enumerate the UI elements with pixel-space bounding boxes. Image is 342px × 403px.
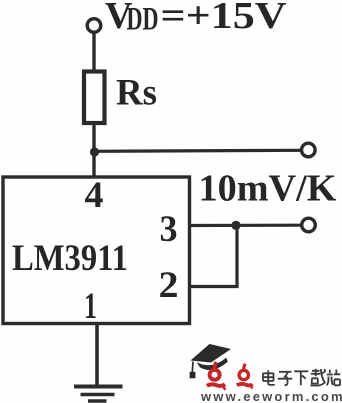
wire pin 1 bbox=[95, 323, 99, 387]
wire pin 2 bbox=[190, 225, 237, 286]
svg-text:4: 4 bbox=[85, 175, 104, 216]
wire bbox=[92, 33, 95, 72]
svg-text:2: 2 bbox=[159, 265, 179, 306]
wire pin 3 bbox=[190, 224, 302, 228]
watermark 电子下载站 (drawn strokes) bbox=[263, 369, 340, 386]
op-amp U1 LM3911 box bbox=[3, 177, 190, 324]
svg-text:1: 1 bbox=[84, 286, 97, 327]
svg-text:10mV/K: 10mV/K bbox=[199, 168, 337, 210]
svg-text:3: 3 bbox=[160, 209, 178, 250]
watermark logo graduation cap bbox=[190, 344, 231, 378]
watermark 虫虫 first bug char bbox=[207, 362, 226, 390]
terminal VDD bbox=[87, 19, 101, 33]
wire bbox=[92, 123, 95, 177]
glyph 载 bbox=[311, 369, 326, 386]
wire bbox=[94, 150, 302, 151]
node junction pin3 bbox=[231, 221, 240, 230]
terminal top-right bbox=[302, 143, 316, 157]
svg-text:=+15V: =+15V bbox=[161, 0, 288, 37]
glyph 电 bbox=[263, 370, 275, 385]
ground bbox=[74, 385, 123, 389]
glyph 子 bbox=[278, 372, 293, 385]
watermark 虫虫 second bug char bbox=[237, 364, 253, 389]
svg-text:www.eeworm.com: www.eeworm.com bbox=[200, 389, 342, 403]
svg-text:LM3911: LM3911 bbox=[12, 238, 128, 279]
node junction bbox=[90, 147, 99, 156]
glyph 下 bbox=[294, 371, 308, 385]
svg-text:DD: DD bbox=[127, 2, 159, 38]
glyph 站 bbox=[327, 370, 341, 386]
svg-text:Rs: Rs bbox=[116, 73, 157, 114]
resistor Rs bbox=[84, 72, 105, 124]
terminal pin3 output bbox=[302, 218, 316, 232]
